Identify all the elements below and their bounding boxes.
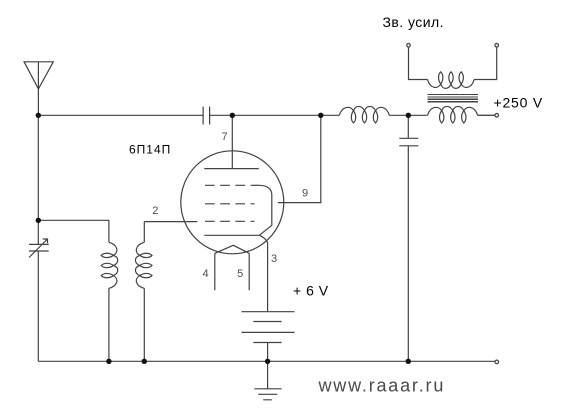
svg-text:2: 2	[152, 205, 158, 217]
svg-text:4: 4	[203, 268, 209, 280]
svg-text:www.raaar.ru: www.raaar.ru	[318, 375, 446, 395]
svg-text:3: 3	[271, 253, 277, 265]
svg-text:9: 9	[302, 187, 308, 199]
svg-text:5: 5	[237, 268, 243, 280]
svg-text:Зв. усил.: Зв. усил.	[383, 14, 444, 30]
svg-text:6П14П: 6П14П	[129, 142, 171, 156]
svg-text:7: 7	[222, 131, 228, 143]
svg-text:+ 6 V: + 6 V	[293, 282, 329, 298]
svg-text:+250 V: +250 V	[494, 94, 544, 110]
